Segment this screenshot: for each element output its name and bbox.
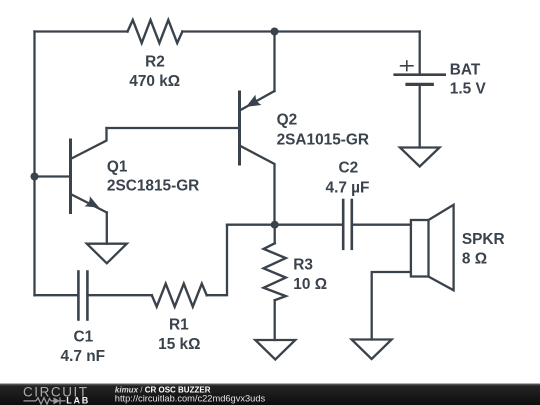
svg-text:10 Ω: 10 Ω — [293, 276, 327, 293]
wire left rail to C1 — [35, 294, 79, 296]
svg-text:C2: C2 — [338, 160, 358, 177]
wire feedback drop to R1 — [207, 225, 227, 296]
battery BAT plates — [395, 61, 445, 84]
svg-text:R1: R1 — [169, 316, 189, 333]
svg-text:2SA1015-GR: 2SA1015-GR — [277, 131, 369, 148]
svg-text:R2: R2 — [145, 53, 165, 70]
svg-text:SPKR: SPKR — [462, 231, 505, 248]
svg-text:15 kΩ: 15 kΩ — [158, 336, 200, 353]
wire Q1 collector to Q2 base — [107, 127, 239, 129]
capacitor C1 — [78, 272, 87, 320]
node junction Q1 base — [31, 173, 39, 181]
node junction middle — [271, 221, 279, 229]
wire battery lead bottom — [419, 84, 421, 147]
svg-text:4.7 µF: 4.7 µF — [326, 179, 370, 196]
svg-text:Q1: Q1 — [107, 158, 128, 175]
svg-text:http://circuitlab.com/c22md6gv: http://circuitlab.com/c22md6gvx3uds — [115, 394, 266, 404]
wire R3 top lead — [274, 225, 276, 244]
svg-text:2SC1815-GR: 2SC1815-GR — [107, 177, 199, 194]
svg-text:C1: C1 — [73, 329, 93, 346]
speaker SPKR body — [411, 205, 454, 290]
wire top-left horizontal to R2 — [35, 30, 128, 32]
ground below battery — [400, 148, 440, 167]
wire speaker bottom lead — [372, 272, 411, 340]
ground below Q1 emitter — [87, 244, 127, 264]
svg-text:1.5 V: 1.5 V — [450, 81, 487, 98]
resistor R1 — [152, 284, 207, 307]
wire Q1 emitter vertical — [106, 213, 108, 244]
transistor Q1 emitter diagonal with arrow — [72, 195, 107, 213]
wire C2 to speaker — [352, 224, 411, 226]
transistor Q2 bar — [238, 92, 241, 164]
ground below speaker — [352, 340, 392, 360]
svg-text:LAB: LAB — [66, 395, 90, 405]
wire battery lead top — [419, 32, 421, 75]
wire top from R2 to battery — [182, 30, 419, 32]
capacitor C2 — [343, 200, 352, 249]
ground below R3 — [255, 340, 295, 360]
transistor Q1 collector — [72, 128, 107, 159]
wire Q1 base — [35, 175, 70, 177]
wire C1 to R1 — [87, 294, 151, 296]
resistor R2 — [128, 20, 183, 43]
svg-text:Q2: Q2 — [277, 111, 298, 128]
svg-text:4.7 nF: 4.7 nF — [61, 348, 105, 365]
wire middle horizontal — [227, 224, 343, 226]
resistor R3 — [264, 243, 286, 300]
wire Q2 emitter vertical — [273, 32, 275, 92]
transistor Q2 emitter diagonal with arrow — [241, 91, 275, 110]
svg-text:8 Ω: 8 Ω — [462, 250, 487, 267]
logo resistor-diode squiggle — [24, 397, 66, 404]
svg-text:470 kΩ: 470 kΩ — [129, 73, 180, 90]
svg-text:BAT: BAT — [450, 62, 481, 79]
svg-text:R3: R3 — [293, 256, 313, 273]
node junction top (Q2 emitter / BAT) — [271, 28, 279, 36]
transistor Q1 bar — [69, 140, 72, 213]
transistor Q2 collector — [241, 146, 275, 225]
wire left vertical rail — [33, 32, 35, 296]
wire R3 bottom lead — [274, 300, 276, 340]
